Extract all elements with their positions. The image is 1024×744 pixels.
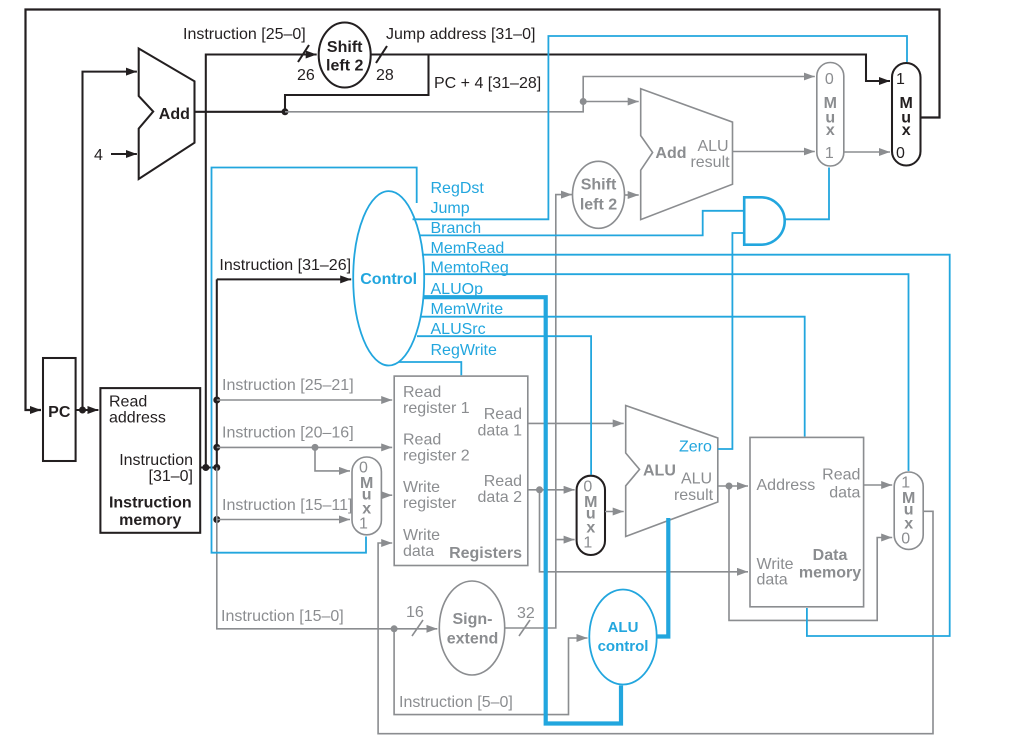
mux RegDst capsule [352, 457, 381, 535]
svg-text:Jump address [31–0]: Jump address [31–0] [386, 26, 535, 43]
shifter Shift-left-2 (branch) [573, 161, 625, 228]
adder Add1 (PC+4) [139, 49, 195, 180]
svg-text:[31–0]: [31–0] [149, 468, 193, 485]
mux Jump capsule [892, 63, 921, 166]
memory Registers box [394, 376, 528, 565]
svg-text:Jump: Jump [431, 200, 470, 217]
node instruction output A [202, 464, 209, 471]
svg-text:1: 1 [901, 474, 910, 491]
svg-text:memory: memory [119, 512, 181, 529]
wire Jump control [413, 36, 908, 219]
register PC box [43, 358, 76, 461]
svg-text:Write: Write [403, 479, 440, 496]
svg-text:address: address [109, 409, 166, 426]
node instr[25-21] tap [213, 397, 220, 404]
svg-text:Zero: Zero [679, 439, 712, 456]
svg-text:left 2: left 2 [580, 197, 617, 214]
svg-text:Read: Read [403, 384, 441, 401]
svg-text:PC + 4 [31–28]: PC + 4 [31–28] [434, 75, 541, 92]
svg-text:RegDst: RegDst [431, 180, 485, 197]
svg-text:ALUOp: ALUOp [431, 281, 484, 298]
wire ALU result to Data memory [718, 485, 748, 487]
svg-text:Instruction: Instruction [109, 495, 192, 512]
svg-text:28: 28 [376, 67, 394, 84]
wire instr[20-16] to RegDst mux input0 [315, 447, 350, 471]
svg-text:register 2: register 2 [403, 448, 470, 465]
svg-text:ALU: ALU [697, 138, 728, 155]
svg-text:Address: Address [757, 477, 816, 494]
wire Instruction[15-0] gray vertical [217, 468, 437, 629]
svg-text:Shift: Shift [581, 177, 617, 194]
svg-text:MemtoReg: MemtoReg [431, 260, 509, 277]
svg-text:result: result [674, 487, 714, 504]
wire ALUSrc control to mux select [417, 336, 591, 475]
shifter Shift-left-2 (jump) [319, 23, 371, 88]
svg-text:Instruction: Instruction [119, 452, 193, 469]
svg-text:register: register [403, 495, 457, 512]
wire AND output to PCSrc mux select [785, 168, 829, 220]
signext Sign-extend ellipse [439, 581, 504, 675]
wire MemRead control to Data memory bottom [422, 255, 950, 636]
memory Instruction-memory box [100, 388, 200, 533]
wire ALU result bypass to MemtoReg mux input0 [729, 486, 892, 620]
svg-text:x: x [826, 122, 835, 139]
wire Read data 2 to ALUSrc mux [528, 489, 575, 491]
svg-text:extend: extend [447, 631, 499, 648]
svg-text:Data: Data [813, 547, 848, 564]
wire PC+4[31-28] riser to jump address [285, 55, 429, 112]
wire PCSrc mux output to jump mux [844, 151, 890, 153]
node read data 2 tap [536, 486, 543, 493]
svg-text:0: 0 [359, 459, 368, 476]
svg-text:Add: Add [655, 145, 686, 162]
wire ALUOp control thick [424, 297, 621, 723]
svg-text:1: 1 [583, 535, 592, 552]
svg-text:16: 16 [406, 604, 424, 621]
mux ALUSrc capsule [577, 476, 605, 555]
mux MemtoReg capsule [894, 472, 923, 549]
wire Instruction[25-0] to shift-left-2 [206, 55, 317, 468]
wire write-back to Registers Write data [378, 511, 933, 733]
svg-text:ALU: ALU [608, 619, 639, 636]
svg-text:ALU: ALU [643, 463, 676, 480]
svg-text:data: data [829, 485, 860, 502]
wire ALUSrc mux output to ALU [605, 511, 624, 513]
wire jump address to jump mux [371, 55, 890, 82]
svg-text:Read: Read [484, 406, 522, 423]
svg-text:Sign-: Sign- [453, 611, 493, 628]
svg-text:Read: Read [403, 432, 441, 449]
svg-text:1: 1 [359, 516, 368, 533]
svg-text:RegWrite: RegWrite [431, 342, 497, 359]
node PC output junction [79, 407, 86, 414]
node instruction output B [213, 464, 220, 471]
svg-text:Write: Write [403, 527, 440, 544]
wire Read data to MemtoReg mux input1 [864, 484, 893, 486]
svg-text:Read: Read [109, 394, 147, 411]
svg-text:1: 1 [896, 71, 905, 88]
svg-text:32: 32 [517, 605, 535, 622]
svg-text:0: 0 [583, 479, 592, 496]
gate AND branch [744, 197, 785, 244]
bus slash 28 [376, 46, 387, 63]
node PC+4 junction [282, 108, 289, 115]
svg-text:Control: Control [360, 271, 417, 288]
svg-text:26: 26 [297, 67, 315, 84]
controller ALU-control ellipse [589, 590, 656, 685]
memory Data-memory box [750, 437, 864, 606]
wire PC to Add [83, 72, 137, 410]
svg-text:Instruction [25–0]: Instruction [25–0] [183, 26, 306, 43]
wire Add1 output [195, 111, 285, 113]
wire PC+4 into branch adder [583, 101, 639, 103]
wire MemtoReg control to mux select [424, 274, 909, 471]
wire PC output [76, 409, 99, 411]
wire branch adder output to PCSrc mux [733, 151, 815, 153]
wire RegWrite control to Registers [399, 362, 462, 375]
wire immediate to ALUSrc mux input1 [556, 539, 575, 541]
svg-text:0: 0 [901, 531, 910, 548]
svg-text:Add: Add [159, 106, 190, 123]
wire Branch control to AND gate [420, 211, 745, 236]
svg-text:Shift: Shift [327, 39, 363, 56]
svg-text:Instruction [15–11]: Instruction [15–11] [222, 497, 352, 514]
svg-text:ALUSrc: ALUSrc [431, 321, 486, 338]
svg-text:Instruction [5–0]: Instruction [5–0] [399, 694, 513, 711]
wire Instruction[15-11] to RegDst mux input1 [217, 519, 350, 521]
svg-text:0: 0 [825, 71, 834, 88]
wire Instruction[5-0] to ALU control [394, 629, 587, 715]
wire RegDst control [212, 168, 417, 553]
svg-text:Instruction [20–16]: Instruction [20–16] [222, 425, 354, 442]
bus slash 16 [412, 620, 423, 636]
wire ALU control output thick [656, 518, 668, 637]
wire Zero to AND gate [718, 233, 744, 449]
svg-text:MemWrite: MemWrite [431, 301, 504, 318]
wire Instruction[20-16] [217, 446, 392, 448]
svg-text:ALU: ALU [681, 471, 712, 488]
node PC+4 branch tap [580, 98, 587, 105]
svg-text:data: data [757, 572, 788, 589]
svg-text:Read: Read [484, 473, 522, 490]
node instr[15-11] tap [213, 516, 220, 523]
svg-text:result: result [690, 154, 730, 171]
bus slash 26 [298, 45, 309, 62]
svg-text:x: x [902, 122, 911, 139]
controller Control ellipse [353, 191, 424, 365]
svg-text:data 2: data 2 [478, 489, 523, 506]
bus slash 32 [519, 620, 530, 636]
svg-text:Read: Read [822, 467, 860, 484]
svg-text:data: data [403, 543, 434, 560]
svg-text:1: 1 [825, 145, 834, 162]
wire PC+4 gray to branch adder and PCSrc mux [285, 77, 815, 112]
node instr[20-16] tap [213, 444, 220, 451]
wire PC-loop (jump mux output back to PC) [26, 10, 940, 411]
svg-text:Registers: Registers [449, 545, 522, 562]
svg-text:register 1: register 1 [403, 400, 470, 417]
svg-text:Instruction [31–26]: Instruction [31–26] [219, 257, 351, 274]
wire sign-extend riser to shift-left-2 and ALUSrc mux [505, 195, 572, 628]
svg-text:Instruction [15–0]: Instruction [15–0] [221, 608, 344, 625]
alu ALU main [626, 406, 718, 537]
svg-text:Instruction [25–21]: Instruction [25–21] [222, 377, 354, 394]
svg-text:MemRead: MemRead [431, 240, 505, 257]
svg-text:control: control [598, 638, 649, 655]
svg-text:PC: PC [48, 404, 71, 421]
mux PCSrc capsule [817, 63, 844, 167]
node instr[20-16] branch tap [312, 444, 319, 451]
svg-text:Branch: Branch [431, 220, 482, 237]
wire Read data 1 to ALU [528, 422, 624, 424]
svg-text:memory: memory [799, 565, 861, 582]
wire MemWrite control to Data memory top [421, 317, 805, 437]
wire Instruction[31-26] to Control [217, 278, 351, 280]
wire 4 to Add [111, 153, 137, 155]
wire instruction field vertical [216, 279, 218, 467]
wire Instruction[25-21] [217, 399, 392, 401]
wire read data 2 to Write data of memory [540, 490, 749, 572]
svg-text:left 2: left 2 [326, 58, 363, 75]
wire shift-left-2 to branch adder [625, 194, 639, 196]
wire RegDst mux output to Write register [381, 494, 392, 496]
svg-text:0: 0 [896, 145, 905, 162]
node ALU result tap [726, 483, 733, 490]
adder Add2 (branch target) [641, 89, 733, 220]
node sign-extend input tap [391, 625, 398, 632]
svg-text:data 1: data 1 [478, 423, 523, 440]
svg-text:4: 4 [94, 147, 103, 164]
wire instruction memory output stub [200, 466, 217, 468]
